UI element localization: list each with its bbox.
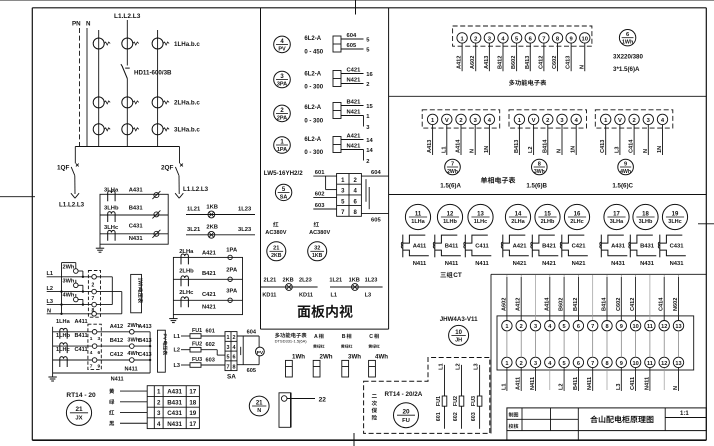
svg-text:11: 11 <box>647 361 653 367</box>
svg-text:0 - 300: 0 - 300 <box>304 150 323 156</box>
svg-text:11: 11 <box>647 324 653 330</box>
svg-text:N411: N411 <box>413 261 427 267</box>
svg-text:2: 2 <box>474 36 477 42</box>
svg-text:B431: B431 <box>640 243 655 249</box>
svg-text:3PA: 3PA <box>277 82 287 88</box>
svg-text:1: 1 <box>157 389 161 396</box>
svg-text:N: N <box>579 65 585 69</box>
svg-text:604: 604 <box>347 33 357 39</box>
svg-text:DTSD331-1.5(6A): DTSD331-1.5(6A) <box>275 339 308 344</box>
svg-text:2KB: 2KB <box>283 278 294 284</box>
svg-text:5: 5 <box>563 361 566 367</box>
svg-text:7: 7 <box>227 364 230 370</box>
svg-text:N431: N431 <box>640 261 655 267</box>
svg-text:3: 3 <box>157 410 161 417</box>
svg-text:N: N <box>673 386 679 390</box>
svg-text:1N: 1N <box>484 146 490 153</box>
svg-text:2: 2 <box>520 324 523 330</box>
svg-text:N411: N411 <box>111 376 124 382</box>
svg-text:7: 7 <box>90 363 93 369</box>
svg-text:L3: L3 <box>174 363 181 369</box>
svg-text:14: 14 <box>366 138 373 144</box>
svg-text:5: 5 <box>563 324 566 330</box>
svg-text:1LHc: 1LHc <box>474 219 488 225</box>
svg-text:12: 12 <box>447 211 454 217</box>
svg-text:2: 2 <box>459 118 462 124</box>
svg-text:4: 4 <box>233 345 236 351</box>
svg-text:V: V <box>445 118 449 124</box>
svg-text:N431: N431 <box>611 261 626 267</box>
svg-text:3: 3 <box>534 361 537 367</box>
svg-text:A414: A414 <box>456 139 462 153</box>
svg-text:L3: L3 <box>474 363 480 370</box>
svg-text:B602: B602 <box>559 298 565 311</box>
svg-text:9: 9 <box>620 324 623 330</box>
svg-text:C412: C412 <box>538 56 544 69</box>
svg-text:C421: C421 <box>202 292 217 298</box>
svg-text:A431: A431 <box>129 188 144 194</box>
svg-text:B411: B411 <box>75 333 88 339</box>
svg-text:2: 2 <box>233 335 236 341</box>
svg-text:1L23: 1L23 <box>365 278 378 284</box>
svg-text:3: 3 <box>98 336 101 342</box>
svg-text:604: 604 <box>371 170 381 176</box>
svg-text:2KB: 2KB <box>206 225 218 231</box>
svg-text:1N: 1N <box>657 146 663 153</box>
svg-text:L3: L3 <box>616 383 622 390</box>
svg-text:A602: A602 <box>470 56 476 69</box>
svg-text:C414: C414 <box>629 139 635 153</box>
svg-text:32: 32 <box>314 246 320 252</box>
svg-text:N421: N421 <box>202 305 217 311</box>
svg-text:6L2-A: 6L2-A <box>304 36 321 42</box>
svg-text:4: 4 <box>157 421 161 428</box>
svg-text:20: 20 <box>402 409 410 416</box>
svg-text:N: N <box>643 149 649 153</box>
svg-text:4Wh: 4Wh <box>375 354 388 361</box>
svg-text:N: N <box>86 21 91 28</box>
svg-text:16: 16 <box>366 72 373 78</box>
svg-text:2PA: 2PA <box>226 268 238 274</box>
svg-text:13: 13 <box>675 324 681 330</box>
svg-text:3LHc: 3LHc <box>668 219 682 225</box>
svg-text:C414: C414 <box>659 297 665 311</box>
svg-text:2L23: 2L23 <box>299 278 312 284</box>
svg-text:FU3: FU3 <box>192 357 202 363</box>
svg-text:B411: B411 <box>573 377 579 390</box>
svg-text:17: 17 <box>613 211 620 217</box>
svg-text:603: 603 <box>315 203 325 209</box>
svg-text:0 - 450: 0 - 450 <box>304 50 323 56</box>
svg-text:JX: JX <box>75 415 82 421</box>
svg-text:FU1: FU1 <box>192 328 202 334</box>
svg-text:1N: 1N <box>571 146 577 153</box>
svg-text:SA: SA <box>280 195 288 201</box>
svg-text:C412: C412 <box>110 352 123 358</box>
svg-text:A413: A413 <box>484 56 490 69</box>
svg-text:A431: A431 <box>167 389 182 396</box>
svg-text:L3: L3 <box>614 146 620 153</box>
svg-text:5: 5 <box>227 355 230 361</box>
svg-text:3LHc: 3LHc <box>104 225 119 231</box>
svg-text:B421: B421 <box>347 99 362 105</box>
svg-text:10: 10 <box>632 361 638 367</box>
svg-text:L1.L2.L3: L1.L2.L3 <box>183 186 209 193</box>
svg-text:605: 605 <box>247 368 256 374</box>
svg-text:N421: N421 <box>347 77 362 83</box>
svg-text:605: 605 <box>371 218 381 224</box>
svg-text:18: 18 <box>189 399 196 406</box>
svg-text:LW5-16YH2/2: LW5-16YH2/2 <box>264 170 303 177</box>
svg-text:3LHb: 3LHb <box>104 206 119 212</box>
svg-text:RT14 - 20: RT14 - 20 <box>66 392 96 399</box>
svg-text:2Wh: 2Wh <box>447 169 458 175</box>
svg-text:PN: PN <box>72 21 81 28</box>
svg-text:PV: PV <box>278 47 286 53</box>
svg-text:N411: N411 <box>587 377 593 390</box>
svg-text:6: 6 <box>577 361 580 367</box>
svg-text:602: 602 <box>453 412 459 421</box>
svg-text:C411: C411 <box>475 243 489 249</box>
svg-text:PV: PV <box>161 334 167 341</box>
svg-text:2Wh: 2Wh <box>320 354 333 361</box>
svg-text:2: 2 <box>366 82 369 88</box>
svg-text:2LHc: 2LHc <box>570 219 584 225</box>
svg-text:C421: C421 <box>347 67 362 73</box>
svg-text:2: 2 <box>546 118 549 124</box>
svg-text:1.5(6)C: 1.5(6)C <box>612 183 633 190</box>
svg-text:3Wh: 3Wh <box>534 169 545 175</box>
svg-text:2LHc: 2LHc <box>179 290 194 296</box>
svg-text:1QF: 1QF <box>57 165 70 172</box>
svg-text:B: B <box>342 334 346 340</box>
svg-text:13: 13 <box>477 211 484 217</box>
svg-text:1: 1 <box>90 336 93 342</box>
svg-text:1LHa.b.c: 1LHa.b.c <box>174 41 200 48</box>
svg-text:8: 8 <box>92 308 95 314</box>
svg-text:14: 14 <box>515 211 522 217</box>
svg-text:B421: B421 <box>202 271 217 277</box>
svg-text:9: 9 <box>98 363 101 369</box>
svg-text:B431: B431 <box>167 399 182 406</box>
svg-text:2PA: 2PA <box>277 116 287 122</box>
svg-text:V: V <box>532 118 536 124</box>
svg-text:C411: C411 <box>630 377 636 390</box>
svg-text:A412: A412 <box>516 298 522 311</box>
svg-text:19: 19 <box>189 410 196 417</box>
svg-text:4Wh: 4Wh <box>620 169 631 175</box>
svg-text:V: V <box>618 118 622 124</box>
svg-text:B413: B413 <box>514 140 520 153</box>
svg-text:C413: C413 <box>566 56 572 69</box>
svg-text:21: 21 <box>273 246 279 252</box>
svg-text:8: 8 <box>605 361 608 367</box>
svg-text:0 - 300: 0 - 300 <box>304 119 323 125</box>
svg-text:C: C <box>369 334 373 340</box>
svg-text:17: 17 <box>189 389 196 396</box>
svg-text:FU1: FU1 <box>436 396 442 406</box>
svg-text:L1: L1 <box>439 363 445 370</box>
svg-text:1LHa: 1LHa <box>411 219 425 225</box>
svg-text:21: 21 <box>75 406 83 413</box>
svg-text:1KB: 1KB <box>349 278 360 284</box>
svg-text:9: 9 <box>620 361 623 367</box>
svg-text:L1: L1 <box>331 293 338 299</box>
svg-text:PV: PV <box>257 350 264 356</box>
svg-text:605: 605 <box>347 43 357 49</box>
svg-text:N: N <box>257 408 261 414</box>
svg-text:7: 7 <box>542 36 545 42</box>
svg-text:C431: C431 <box>167 410 182 417</box>
svg-text:6L2-A: 6L2-A <box>304 137 321 143</box>
svg-text:C431: C431 <box>670 243 685 249</box>
svg-text:601: 601 <box>436 412 442 421</box>
svg-text:12: 12 <box>661 361 667 367</box>
svg-text:601: 601 <box>315 170 325 176</box>
svg-text:KD11: KD11 <box>299 293 313 299</box>
svg-text:603: 603 <box>471 412 477 421</box>
svg-text:L2: L2 <box>47 286 54 292</box>
svg-text:2LHb: 2LHb <box>541 219 555 225</box>
svg-text:A413: A413 <box>138 324 151 330</box>
svg-text:9: 9 <box>624 161 627 167</box>
svg-text:8: 8 <box>233 364 236 370</box>
svg-text:1L21: 1L21 <box>187 207 201 213</box>
svg-text:B412: B412 <box>110 338 123 344</box>
svg-text:602: 602 <box>206 342 215 348</box>
svg-text:KD11: KD11 <box>262 293 276 299</box>
svg-text:3: 3 <box>227 345 230 351</box>
svg-text:A414: A414 <box>544 297 550 311</box>
svg-text:1LHa: 1LHa <box>56 319 71 325</box>
svg-text:6L2-A: 6L2-A <box>304 105 321 111</box>
svg-text:B412: B412 <box>573 298 579 311</box>
svg-text:3L23: 3L23 <box>238 227 252 233</box>
svg-text:21: 21 <box>256 400 263 406</box>
svg-text:HD11-600/3B: HD11-600/3B <box>134 70 172 77</box>
svg-text:A431: A431 <box>611 243 626 249</box>
svg-text:N421: N421 <box>347 109 362 115</box>
svg-text:3PA: 3PA <box>226 289 238 295</box>
svg-text:4Wh: 4Wh <box>63 293 75 299</box>
svg-text:7: 7 <box>591 361 594 367</box>
svg-text:7: 7 <box>591 324 594 330</box>
svg-text:1: 1 <box>227 335 230 341</box>
svg-text:1L23: 1L23 <box>238 207 252 213</box>
svg-text:3: 3 <box>534 324 537 330</box>
svg-text:L3: L3 <box>365 293 372 299</box>
svg-text:L1: L1 <box>174 334 181 340</box>
svg-text:N431: N431 <box>167 421 182 428</box>
svg-text:13: 13 <box>675 361 681 367</box>
svg-text:6L2-A: 6L2-A <box>304 71 321 77</box>
svg-text:CT: CT <box>453 272 462 279</box>
svg-text:3*1.5(6)A: 3*1.5(6)A <box>613 66 640 73</box>
svg-text:B414: B414 <box>602 297 608 311</box>
svg-text:10: 10 <box>455 330 462 336</box>
svg-text:3X220/380: 3X220/380 <box>613 54 643 61</box>
svg-text:B602: B602 <box>511 56 517 69</box>
svg-text:N: N <box>47 308 51 314</box>
svg-text:B413: B413 <box>525 56 531 69</box>
svg-text:22: 22 <box>319 396 327 403</box>
svg-text:L1.L2.L3: L1.L2.L3 <box>114 13 141 20</box>
svg-text:N431: N431 <box>129 236 144 242</box>
svg-text:A413: A413 <box>427 140 433 153</box>
svg-text:1.5(6)B: 1.5(6)B <box>526 183 547 190</box>
svg-text:1LHc: 1LHc <box>56 347 70 353</box>
svg-text:A411: A411 <box>516 377 522 390</box>
svg-text:2KB: 2KB <box>271 253 282 259</box>
svg-text:N411: N411 <box>125 367 138 373</box>
svg-text:1LHb: 1LHb <box>56 333 71 339</box>
svg-text:A421: A421 <box>202 251 217 257</box>
svg-text:2LHb: 2LHb <box>179 269 194 275</box>
svg-text:1LHb: 1LHb <box>443 219 457 225</box>
svg-text:L2: L2 <box>528 146 534 153</box>
svg-text:14: 14 <box>366 148 373 154</box>
svg-text:N411: N411 <box>530 377 536 390</box>
svg-text:A602: A602 <box>501 298 507 311</box>
svg-text:A421: A421 <box>513 243 528 249</box>
svg-text:1KB: 1KB <box>206 204 218 210</box>
svg-text:6: 6 <box>98 350 101 356</box>
svg-text:FU3: FU3 <box>471 396 477 406</box>
svg-text:A421: A421 <box>347 133 362 139</box>
svg-text:16: 16 <box>574 211 581 217</box>
svg-text:B411: B411 <box>445 243 459 249</box>
svg-text:1PA: 1PA <box>277 147 287 153</box>
svg-text:1: 1 <box>505 361 508 367</box>
svg-text:C412: C412 <box>630 298 636 311</box>
svg-text:N411: N411 <box>445 261 459 267</box>
svg-text:18: 18 <box>642 211 649 217</box>
svg-text:604: 604 <box>247 330 257 336</box>
svg-text:12: 12 <box>661 324 667 330</box>
svg-text:2QF: 2QF <box>161 165 174 172</box>
svg-text:0 - 300: 0 - 300 <box>304 85 323 91</box>
svg-text:B414: B414 <box>542 139 548 153</box>
svg-text:C431: C431 <box>129 224 144 230</box>
svg-text:3LHa.b.c: 3LHa.b.c <box>174 127 200 134</box>
svg-text:C602: C602 <box>616 298 622 311</box>
svg-text:19: 19 <box>672 211 679 217</box>
svg-text:A412: A412 <box>110 324 123 330</box>
svg-text:N421: N421 <box>513 261 528 267</box>
svg-text:2: 2 <box>157 399 161 406</box>
svg-text:3Wh: 3Wh <box>348 354 361 361</box>
svg-text:FU2: FU2 <box>453 396 459 406</box>
svg-text:1Wh: 1Wh <box>137 278 143 289</box>
svg-text:N602: N602 <box>673 298 679 311</box>
svg-text:1PA: 1PA <box>226 248 238 254</box>
svg-text:3Wh: 3Wh <box>63 279 75 285</box>
svg-text:15: 15 <box>544 211 551 217</box>
svg-text:N: N <box>557 149 563 153</box>
svg-text:7: 7 <box>451 161 454 167</box>
svg-text:8: 8 <box>538 161 541 167</box>
svg-text:B412: B412 <box>497 56 503 69</box>
svg-text:6: 6 <box>577 324 580 330</box>
svg-text:L2: L2 <box>559 383 565 390</box>
svg-text:N431: N431 <box>670 261 685 267</box>
svg-text:FU: FU <box>402 418 410 424</box>
svg-text:L3: L3 <box>47 299 54 305</box>
svg-text:3LHa: 3LHa <box>610 219 624 225</box>
svg-text:15: 15 <box>366 104 373 110</box>
svg-text:RT14 - 20/2A: RT14 - 20/2A <box>385 391 423 398</box>
svg-text:C413: C413 <box>600 140 606 153</box>
svg-text:6: 6 <box>233 355 236 361</box>
svg-text:603: 603 <box>206 358 215 364</box>
svg-text:1KB: 1KB <box>312 253 323 259</box>
svg-text:1Wh: 1Wh <box>292 354 305 361</box>
svg-text:C411: C411 <box>75 347 88 353</box>
svg-text:2: 2 <box>632 118 635 124</box>
svg-text:L2: L2 <box>456 363 462 370</box>
svg-text:A: A <box>314 334 318 340</box>
svg-text:N421: N421 <box>542 261 557 267</box>
svg-text:10: 10 <box>582 36 588 42</box>
svg-text:N411: N411 <box>475 261 489 267</box>
svg-text:1.5(6)A: 1.5(6)A <box>440 183 461 190</box>
svg-text:4: 4 <box>90 350 93 356</box>
svg-text:2: 2 <box>92 283 95 289</box>
svg-text:8: 8 <box>605 324 608 330</box>
svg-text:N421: N421 <box>572 261 587 267</box>
svg-text:1Wh: 1Wh <box>622 40 633 46</box>
svg-text:AC380V: AC380V <box>309 230 330 236</box>
svg-text:C602: C602 <box>552 56 558 69</box>
svg-text:A412: A412 <box>457 56 463 69</box>
svg-text:602: 602 <box>315 192 325 198</box>
svg-text:2LHa: 2LHa <box>511 219 525 225</box>
svg-text:1L21: 1L21 <box>329 278 342 284</box>
svg-text:N: N <box>470 149 476 153</box>
svg-text:601: 601 <box>206 329 215 335</box>
svg-text:FU2: FU2 <box>192 342 202 348</box>
svg-text:1: 1 <box>505 324 508 330</box>
svg-text:2: 2 <box>366 159 369 165</box>
svg-text:1:1: 1:1 <box>680 411 689 417</box>
svg-text:C421: C421 <box>572 243 587 249</box>
svg-text:JH: JH <box>455 338 462 344</box>
svg-text:L1: L1 <box>47 271 54 277</box>
svg-text:N411: N411 <box>644 377 650 390</box>
svg-text:2L21: 2L21 <box>264 278 277 284</box>
svg-text:L1: L1 <box>441 146 447 153</box>
svg-text:JHW4A3-V11: JHW4A3-V11 <box>440 316 478 323</box>
svg-text:B431: B431 <box>129 206 144 212</box>
svg-text:L1: L1 <box>501 383 507 390</box>
svg-text:10: 10 <box>632 324 638 330</box>
svg-text:N421: N421 <box>347 143 362 149</box>
svg-text:B421: B421 <box>542 243 557 249</box>
svg-text:3LHb: 3LHb <box>639 219 653 225</box>
svg-text:A411: A411 <box>413 243 427 249</box>
svg-text:2LHa.b.c: 2LHa.b.c <box>174 100 200 107</box>
svg-text:A411: A411 <box>75 319 88 325</box>
svg-text:7: 7 <box>92 296 95 302</box>
svg-text:17: 17 <box>189 421 196 428</box>
svg-text:2Wh: 2Wh <box>63 265 75 271</box>
svg-text:L2: L2 <box>174 348 181 354</box>
svg-text:11: 11 <box>415 211 422 217</box>
svg-text:2: 2 <box>520 361 523 367</box>
svg-text:AC380V: AC380V <box>265 230 286 236</box>
svg-text:3L21: 3L21 <box>187 227 201 233</box>
svg-text:SA: SA <box>227 374 236 381</box>
